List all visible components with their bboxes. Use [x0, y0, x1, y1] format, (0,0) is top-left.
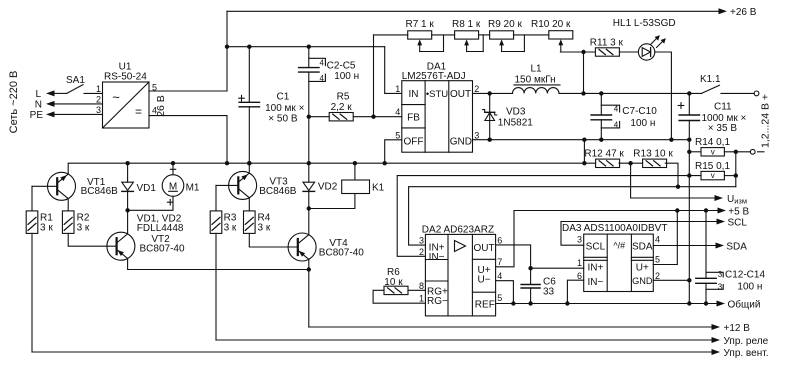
svg-text:+5 В: +5 В — [728, 206, 749, 217]
svg-text:33: 33 — [543, 287, 555, 298]
svg-text:× 35 В: × 35 В — [708, 123, 738, 134]
node VD2 bottom — [307, 206, 311, 210]
svg-text:3: 3 — [474, 130, 479, 140]
wire +26V top bus — [227, 10, 719, 12]
node C2-C5 to R5 — [307, 115, 311, 119]
svg-text:C7-C10: C7-C10 — [622, 106, 657, 117]
svg-text:1: 1 — [96, 84, 101, 94]
wire VT2 collector — [127, 210, 129, 234]
svg-text:HL1 L-53SGD: HL1 L-53SGD — [613, 18, 676, 29]
node HL1 on GND line — [669, 138, 673, 142]
node C1 bottom on 0V bus — [247, 161, 251, 165]
svg-text:GND: GND — [632, 276, 653, 286]
node VD3 bottom — [488, 138, 492, 142]
switch SA1 — [66, 75, 85, 93]
svg-text:=: = — [135, 105, 142, 119]
pin 2 of DA3 — [655, 271, 660, 281]
capacitor C1 — [239, 47, 260, 164]
svg-text:U: U — [727, 194, 734, 205]
svg-text:R10 20 к: R10 20 к — [531, 19, 571, 30]
pin 1 of DA3 — [577, 258, 582, 268]
resistor R12 47 к — [584, 148, 624, 167]
resistor R13 10 к — [633, 148, 673, 167]
svg-text:IN−: IN− — [587, 277, 603, 288]
node R15 left — [687, 173, 691, 177]
wire HL1 cathode down to GND line — [655, 52, 672, 140]
svg-text:5: 5 — [497, 293, 502, 303]
wire wiper node down to OUT line — [583, 52, 585, 93]
svg-text:L: L — [35, 89, 41, 100]
node DA3 U+ riser on +5V — [675, 208, 679, 212]
node C7-C10 top — [599, 91, 603, 95]
wire SA1 to U1 pin1 — [84, 92, 103, 94]
node K1 on 0V bus — [353, 161, 357, 165]
node M1 on 0V bus — [171, 161, 175, 165]
svg-text:3: 3 — [577, 234, 582, 244]
svg-text:RG−: RG− — [427, 296, 448, 307]
svg-text:7: 7 — [497, 257, 502, 267]
svg-text:4: 4 — [395, 107, 400, 117]
pin 3 of DA1 — [474, 130, 479, 140]
svg-text:K1: K1 — [372, 182, 385, 193]
svg-text:8: 8 — [419, 281, 424, 291]
svg-text:150 мкГн: 150 мкГн — [515, 75, 556, 86]
svg-text:REF: REF — [475, 300, 495, 311]
node C7-C10 bottom — [599, 138, 603, 142]
transistor VT3 BC846B — [229, 171, 297, 199]
node R14 left — [687, 150, 691, 154]
node C1 top — [247, 45, 251, 49]
terminal − output — [750, 149, 764, 154]
svg-text:LM2576T-ADJ: LM2576T-ADJ — [402, 71, 466, 82]
svg-text:R9 20 к: R9 20 к — [488, 19, 522, 30]
wire OUT to DA3 IN+ — [531, 267, 584, 269]
node U1 pin4 on 0V bus — [225, 161, 229, 165]
transistor VT4 BC807-40 — [288, 233, 364, 261]
inductor L1 150 мкГн — [513, 64, 561, 94]
count label 4 bottom — [320, 74, 325, 83]
wire REF Общий line — [496, 303, 717, 305]
wire R2 to VT2 base — [68, 233, 116, 246]
diode VD2 FDLL4448 — [303, 163, 338, 208]
potentiometer R8 — [452, 19, 481, 52]
svg-text:100 мк ×: 100 мк × — [265, 103, 304, 114]
wire DA2 U+ to +5V — [496, 211, 514, 267]
wire sense plus to DA2 IN+ — [409, 187, 736, 245]
LED HL1 L-53SGD — [613, 18, 676, 60]
wire SDA — [653, 245, 715, 247]
relay coil K1 — [342, 180, 385, 194]
wire R14/R15 right link — [735, 152, 737, 187]
svg-text:VD2: VD2 — [318, 181, 338, 192]
svg-text:1: 1 — [577, 258, 582, 268]
pin 5 of DA3 — [655, 255, 660, 265]
wire +12V riser — [308, 270, 310, 328]
svg-text:3: 3 — [96, 105, 101, 115]
pin 6 of DA3 — [577, 271, 582, 281]
port SCL — [717, 217, 748, 228]
wire R1 down to fan control rail — [31, 233, 33, 352]
svg-text:× 50 В: × 50 В — [268, 114, 298, 125]
node VD1 top on 0V bus — [125, 161, 129, 165]
value label C2-C5 — [327, 60, 360, 82]
label VD1 VD2 type — [137, 213, 184, 234]
node VD1 bottom — [125, 208, 129, 212]
svg-text:OUT: OUT — [450, 89, 471, 100]
svg-text:3 к: 3 к — [77, 223, 90, 234]
svg-text:DA2 AD623ARZ: DA2 AD623ARZ — [422, 225, 494, 236]
svg-text:4: 4 — [655, 234, 660, 244]
pin 4 of U1 — [152, 106, 157, 116]
svg-text:10 к: 10 к — [384, 277, 403, 288]
wire relay control rail — [216, 339, 712, 341]
svg-text:Упр. вент.: Упр. вент. — [724, 348, 769, 359]
count label 4 top C7-C10 — [614, 105, 619, 114]
svg-text:N: N — [35, 100, 42, 111]
wire PE to U1 pin3 — [54, 113, 103, 115]
wire VT1 base — [32, 185, 57, 187]
svg-text:SDA: SDA — [632, 241, 653, 252]
wire +12V rail — [309, 326, 712, 328]
wire +26V sub-bus — [227, 46, 385, 48]
pin 8 of DA2 — [419, 281, 424, 291]
svg-text:~: ~ — [112, 90, 120, 105]
wire FB line — [309, 116, 402, 118]
wire VT1 emitter to 0V bus — [0, 0, 1, 1]
count label 3 top C12-C14 — [718, 270, 723, 279]
node VD3 top — [488, 91, 492, 95]
potentiometer R10 — [531, 19, 573, 52]
wire Uизм — [631, 163, 715, 198]
svg-text:R7 1 к: R7 1 к — [406, 19, 435, 30]
capacitor C7-C10 — [591, 93, 620, 139]
pin 3 of DA3 — [577, 234, 582, 244]
wire K1 bottom to VD2 — [309, 194, 355, 209]
resistor R3 3 к — [210, 211, 237, 234]
pin 5 of DA1 — [395, 130, 400, 140]
node IN- riser on REF line — [565, 301, 569, 305]
svg-text:GND: GND — [450, 136, 472, 147]
wire DA3 IN- to REF — [567, 280, 583, 303]
svg-text:2: 2 — [655, 271, 660, 281]
pin 3 of U1 — [96, 105, 101, 115]
wire R6 loop to RG- — [373, 290, 425, 303]
svg-text:IN: IN — [409, 89, 419, 100]
svg-text:Упр. реле: Упр. реле — [724, 336, 769, 347]
node C12-C14 riser on +5V — [704, 208, 708, 212]
terminal + output — [754, 91, 759, 96]
port arrow PE — [30, 110, 55, 121]
svg-text:R13 10 к: R13 10 к — [633, 148, 673, 159]
capacitor C2-C5 — [299, 47, 326, 164]
svg-text:SA1: SA1 — [66, 75, 85, 86]
wire R6 to RG+ — [408, 289, 425, 291]
resistor R11 — [590, 38, 624, 57]
svg-text:C11: C11 — [714, 102, 732, 113]
port Упр. вент. — [712, 348, 769, 359]
motor M1 — [162, 169, 200, 205]
power module U1 RS-50-24 — [103, 62, 150, 129]
wire +26V to DA1 IN — [385, 47, 402, 94]
op-amp U-block DA1 LM2576T-ADJ — [402, 62, 473, 153]
svg-text:3: 3 — [718, 270, 723, 279]
svg-text:1: 1 — [419, 294, 424, 304]
svg-text:Сеть ~220 В: Сеть ~220 В — [8, 71, 20, 134]
node DA2 OUT to C6/IN+ — [528, 266, 532, 270]
node C11 top — [687, 91, 691, 95]
pin 4 of DA1 — [395, 107, 400, 117]
svg-text:DA3 ADS1100A0IDBVT: DA3 ADS1100A0IDBVT — [562, 223, 667, 234]
node DA1 OFF on 0V bus — [383, 161, 387, 165]
port arrow L — [35, 89, 54, 100]
svg-text:26 В: 26 В — [155, 95, 167, 117]
svg-text:SDA: SDA — [726, 241, 747, 252]
wire DA3 U+ to +5V — [653, 211, 677, 265]
svg-text:L1: L1 — [530, 64, 542, 75]
wire VT3 collector to R4 — [248, 198, 250, 211]
wire K1 top to 0V bus — [354, 163, 356, 180]
svg-text:1: 1 — [395, 84, 400, 94]
node GND link top — [582, 138, 586, 142]
pin 2 of DA2 — [419, 247, 424, 257]
svg-text:4: 4 — [497, 271, 502, 281]
transistor VT1 BC846B — [48, 172, 119, 200]
wire SCL — [561, 222, 717, 246]
svg-text:5: 5 — [395, 130, 400, 140]
pin 4 of DA2 — [497, 271, 502, 281]
svg-text:+26 В: +26 В — [730, 7, 757, 18]
svg-text:1,2...24 В +: 1,2...24 В + — [759, 94, 771, 148]
resistor R14 0,1 — [689, 137, 750, 156]
diode VD1 FDLL4448 — [122, 163, 157, 210]
port Общий — [717, 298, 761, 310]
wire R3 down to relay control rail — [215, 233, 217, 340]
wire C11 column to Общий — [688, 176, 690, 304]
potentiometer R9 — [488, 19, 522, 52]
svg-text:R14 0,1: R14 0,1 — [695, 137, 730, 148]
count label 3 bottom C12-C14 — [718, 283, 723, 292]
pin 2 of U1 — [96, 95, 101, 105]
switch contact K1.1 — [700, 74, 721, 93]
svg-text:3 к: 3 к — [224, 223, 237, 234]
wire +26V riser — [226, 11, 228, 91]
wire fan control rail — [32, 351, 712, 353]
wire VT3 base — [216, 185, 238, 211]
svg-text:BC846B: BC846B — [81, 186, 119, 197]
label 26 В — [155, 95, 167, 117]
wire U1 pin4 down to 0V bus — [149, 116, 227, 164]
resistor R4 3 к — [244, 211, 271, 234]
node C11 bottom on GND line — [687, 138, 691, 142]
port +5 В — [718, 206, 750, 217]
wire sense minus to DA2 IN- — [397, 176, 701, 257]
svg-text:3 к: 3 к — [258, 223, 271, 234]
wire R10 wiper to R11 — [560, 51, 595, 53]
svg-text:100 н: 100 н — [630, 118, 655, 129]
svg-text:•STU: •STU — [426, 89, 448, 100]
svg-text:OUT: OUT — [473, 243, 494, 254]
node VT4 emitter junction — [307, 267, 311, 271]
node R14 right — [734, 150, 738, 154]
svg-text:BC807-40: BC807-40 — [319, 248, 364, 259]
pin 5 of DA2 — [497, 293, 502, 303]
node DA3 GND on column — [687, 278, 691, 282]
label 1,2...24 В — [759, 94, 771, 148]
svg-text:+12 В: +12 В — [724, 323, 751, 334]
port +12 В — [712, 323, 751, 334]
pin 3 of DA2 — [419, 236, 424, 246]
node R15 right — [734, 173, 738, 177]
svg-text:100 н: 100 н — [334, 71, 359, 82]
potentiometer R7 — [406, 19, 435, 52]
wire R4 to VT4 base — [249, 233, 297, 247]
svg-text:RS-50-24: RS-50-24 — [104, 72, 147, 83]
wire +5V line — [514, 210, 718, 212]
wire FB riser to R7 — [374, 35, 408, 117]
svg-text:v: v — [711, 171, 715, 180]
transistor VT2 BC807-40 — [107, 232, 185, 260]
wire DA2 OUT — [496, 245, 531, 268]
svg-text:^/#: ^/# — [613, 241, 625, 251]
pin 1 of U1 — [96, 84, 101, 94]
svg-text:4: 4 — [614, 121, 619, 130]
value label C11 — [702, 102, 747, 135]
svg-text:SCL: SCL — [728, 217, 748, 228]
wire VT4 collector — [308, 209, 310, 235]
node R12-R13 junction — [628, 161, 632, 165]
svg-text:4: 4 — [320, 58, 325, 67]
svg-text:3: 3 — [419, 236, 424, 246]
capacitor C12-C14 — [696, 211, 723, 304]
svg-text:BC807-40: BC807-40 — [140, 244, 185, 255]
port Uизм — [715, 194, 747, 206]
wire R8 to R9 — [467, 35, 490, 52]
svg-text:VD3: VD3 — [506, 106, 526, 117]
resistor R15 0,1 — [695, 161, 736, 180]
diode VD3 1N5821 — [483, 93, 534, 139]
node DA2 U- on REF line — [511, 301, 515, 305]
pin 1 of DA1 — [395, 84, 400, 94]
wire R13 right down to sense plus — [665, 163, 678, 187]
svg-text:4: 4 — [320, 74, 325, 83]
resistor R6 10 к — [384, 267, 408, 295]
svg-text:3: 3 — [718, 283, 723, 292]
svg-text:6: 6 — [497, 236, 502, 246]
wire DA1 OFF to 0V bus — [385, 140, 402, 163]
svg-text:2: 2 — [419, 247, 424, 257]
svg-text:IN+: IN+ — [587, 262, 603, 273]
wire K1.1 to + terminal — [721, 92, 754, 94]
pin 5 of U1 — [152, 83, 157, 93]
svg-text:BC846B: BC846B — [259, 186, 297, 197]
port +26 В — [719, 7, 757, 18]
net label Сеть ~220 В — [8, 71, 20, 134]
node +26V bus junction — [225, 45, 229, 49]
svg-text:изм: изм — [734, 197, 747, 206]
wire DA3 GND to Общий column — [653, 279, 689, 281]
node VD2 top on 0V bus — [307, 161, 311, 165]
svg-text:6: 6 — [577, 271, 582, 281]
svg-text:Общий: Общий — [728, 298, 761, 310]
value label C7-C10 — [622, 106, 657, 129]
node C11 column on Общий line — [687, 301, 691, 305]
resistor R1 3 к — [26, 211, 53, 234]
svg-text:OFF: OFF — [404, 136, 424, 147]
svg-text:100 н: 100 н — [737, 281, 762, 292]
svg-text:FB: FB — [407, 113, 420, 124]
svg-text:C2-C5: C2-C5 — [327, 60, 356, 71]
wire 0V bus — [68, 163, 595, 174]
wire N to U1 pin2 — [54, 103, 103, 105]
count label 4 bottom C7-C10 — [614, 121, 619, 130]
svg-text:IN−: IN− — [429, 252, 445, 263]
count label 4 top — [320, 58, 325, 67]
wire GND line — [473, 139, 690, 141]
svg-text:1N5821: 1N5821 — [498, 118, 533, 129]
wire M1 top to 0V bus — [172, 163, 174, 175]
capacitor C11 — [678, 93, 699, 151]
svg-text:U−: U− — [477, 275, 490, 286]
svg-text:R8 1 к: R8 1 к — [452, 19, 481, 30]
wire L to switch — [54, 92, 67, 94]
wire VT3 emitter to 0V bus — [248, 163, 250, 173]
node OUT line at wiper riser — [581, 91, 585, 95]
resistor R5 — [329, 92, 353, 121]
svg-text:R11 3 к: R11 3 к — [590, 38, 624, 49]
svg-text:U+: U+ — [636, 262, 649, 273]
node C6 bottom on REF line — [528, 301, 532, 305]
wire R9 to R10 — [502, 35, 549, 52]
capacitor C6 33 — [521, 268, 556, 303]
op-amp DA2 AD623ARZ — [422, 225, 496, 316]
wire R7 to R8 — [420, 35, 455, 52]
node R7 chain to FB — [371, 115, 375, 119]
op-amp DA3 ADS1100A0IDBVT — [562, 223, 667, 291]
wire R11 to HL1 — [619, 51, 638, 53]
svg-text:R12 47 к: R12 47 к — [584, 148, 624, 159]
port arrow N — [35, 100, 55, 111]
pin 4 of DA3 — [655, 234, 660, 244]
svg-text:3 к: 3 к — [40, 223, 53, 234]
value label C1 — [265, 92, 304, 125]
node VT3 on 0V bus — [247, 161, 251, 165]
pin 2 of DA1 — [474, 84, 479, 94]
svg-text:v: v — [711, 147, 715, 156]
node R10 wiper to OUT — [581, 50, 585, 54]
svg-text:C12-C14: C12-C14 — [725, 270, 765, 281]
port Упр. реле — [712, 336, 769, 347]
wire VT1 collector to R2 — [67, 199, 69, 211]
wire U1 pin5 to +26V riser — [149, 90, 227, 92]
wire VT1 base to R1 — [31, 186, 33, 211]
node GND link bottom on 0V bus — [582, 161, 586, 165]
pin 7 of DA2 — [497, 257, 502, 267]
wire VT4 emitter — [308, 259, 310, 269]
svg-text:PE: PE — [30, 110, 44, 121]
resistor R2 3 к — [62, 211, 90, 234]
svg-text:M: M — [169, 181, 177, 192]
svg-text:M1: M1 — [186, 182, 200, 193]
svg-text:5: 5 — [655, 255, 660, 265]
port SDA — [716, 241, 748, 252]
svg-text:FDLL4448: FDLL4448 — [137, 223, 184, 234]
svg-text:2,2 к: 2,2 к — [331, 102, 353, 113]
svg-text:C1: C1 — [277, 92, 290, 103]
svg-text:R5: R5 — [337, 92, 350, 103]
node C12-C14 on Общий line — [704, 301, 708, 305]
svg-text:R15 0,1: R15 0,1 — [695, 161, 730, 172]
wire DA2 U- down — [496, 281, 514, 304]
